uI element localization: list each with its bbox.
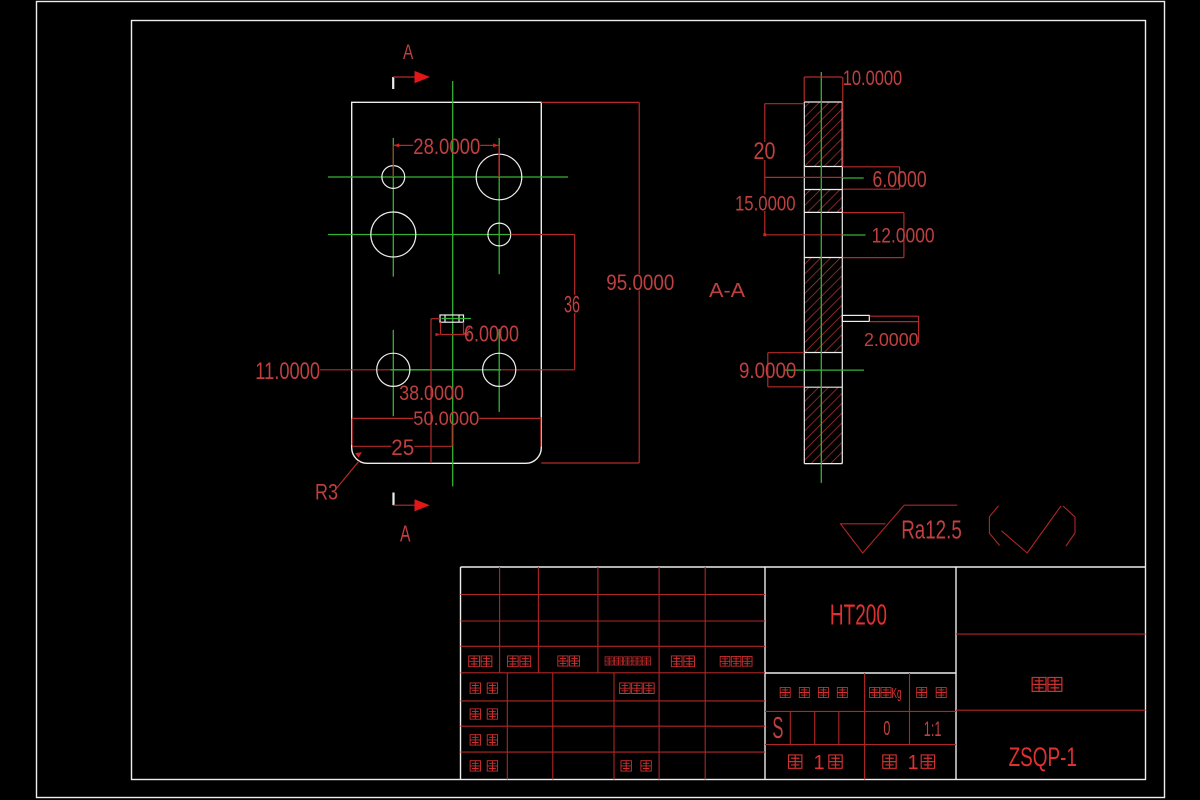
- label zhongliang: [870, 687, 880, 697]
- slot outline: [440, 315, 464, 322]
- revision grid h7: [461, 751, 766, 753]
- plate outline: [352, 102, 542, 463]
- revision grid v3 lower: [613, 673, 615, 780]
- dim 28 arrow left: [393, 143, 399, 147]
- section centerline row1 stub: [843, 177, 864, 179]
- dim 28 line right: [480, 144, 499, 146]
- dim 20 vertical lower: [764, 160, 766, 177]
- label gong 1 ye: [789, 755, 802, 768]
- slot end cap right: [458, 315, 460, 322]
- section marker top white tick: [392, 77, 394, 89]
- dim 10 ext left: [803, 77, 805, 102]
- stamp divider v4: [864, 673, 866, 780]
- stamp row line bottom: [765, 744, 956, 746]
- svg-text:10.0000: 10.0000: [843, 66, 903, 90]
- dim 28 ext right: [498, 145, 500, 177]
- strip right edge: [841, 102, 843, 464]
- svg-text:S: S: [772, 710, 783, 745]
- label genggaiwenjianhao: [605, 657, 613, 665]
- dim 20 vertical upper: [764, 104, 766, 142]
- dim 36 vertical upper: [574, 235, 576, 296]
- label bili: [917, 687, 927, 697]
- dim 28 arrow right: [493, 143, 499, 147]
- label qianming: [671, 656, 682, 667]
- R3 leader: [337, 461, 359, 488]
- title block white top edge: [461, 566, 1146, 568]
- dim 6 arrow left: [436, 333, 441, 337]
- strip top edge: [804, 101, 842, 103]
- revision grid v4 full: [658, 567, 660, 780]
- revision grid v3 upper: [597, 567, 599, 673]
- revision grid v2 upper: [537, 567, 539, 673]
- dim 6 slot connect: [431, 318, 440, 320]
- dim 25 line left: [352, 445, 391, 447]
- svg-text:2.0000: 2.0000: [864, 330, 919, 350]
- dim 6 slot left vertical: [430, 319, 432, 464]
- dim 6 arrow right: [464, 333, 469, 337]
- dim 95 vertical upper: [638, 102, 640, 274]
- revision grid v1 lower: [506, 673, 508, 780]
- dim 10 line: [804, 76, 842, 78]
- revision grid v5 full: [704, 567, 706, 780]
- stamp divider v5: [909, 673, 911, 745]
- label shenhe: [470, 735, 480, 745]
- hatch block B: [804, 190, 842, 213]
- svg-text:1: 1: [908, 752, 919, 774]
- roughness symbol triangle: [841, 505, 958, 553]
- dim 6 bracket vertical: [899, 167, 901, 189]
- dim 10 ext right: [842, 77, 844, 167]
- dim line 11.0000 left segment: [320, 369, 391, 371]
- row1 red line: [765, 176, 843, 178]
- material box bottom white: [765, 672, 956, 674]
- svg-text:28.0000: 28.0000: [413, 134, 480, 159]
- svg-text:20: 20: [754, 138, 776, 165]
- centerline col-right upper: [498, 138, 500, 274]
- label pizhun: [621, 761, 631, 771]
- dim 6 line: [441, 334, 464, 336]
- dim 50 line right: [479, 417, 541, 419]
- dim 15 vertical upper: [764, 177, 766, 194]
- dim 6 bracket bottom: [843, 188, 900, 190]
- paren left: [989, 506, 999, 546]
- part box line 1: [956, 633, 1146, 635]
- dim line 11.0000 right segment: [501, 369, 575, 371]
- hole C top edge: [804, 352, 842, 354]
- R3 arrow: [355, 452, 362, 458]
- svg-text:11.0000: 11.0000: [255, 358, 320, 385]
- label biaozhunhua: [620, 683, 631, 694]
- dim 50 ext right: [540, 417, 542, 447]
- check symbol: [1002, 506, 1062, 553]
- section marker top line: [393, 76, 415, 78]
- hole B bottom edge: [804, 257, 842, 259]
- revision grid h2: [461, 620, 766, 622]
- strip bottom edge: [804, 463, 842, 465]
- label nianyueri: [720, 656, 730, 666]
- slot centerline: [442, 318, 472, 320]
- svg-text:Kg: Kg: [892, 685, 902, 702]
- dim 25 ext right: [451, 425, 453, 446]
- dim 9 bracket top: [768, 352, 805, 354]
- dim 28 ext left: [392, 145, 394, 177]
- label jiaodui: [470, 709, 480, 719]
- label chushu: [507, 656, 518, 667]
- revision grid h5: [461, 700, 766, 702]
- svg-text:A: A: [403, 40, 414, 64]
- svg-text:HT200: HT200: [830, 600, 887, 632]
- dim 12 bracket bottom: [843, 257, 904, 259]
- dim 28 line left: [393, 144, 413, 146]
- centerline col-right lower: [498, 329, 500, 412]
- plate bottom ext line: [541, 462, 639, 464]
- stamp cell v3: [838, 711, 840, 744]
- dim 6 ext left: [440, 322, 442, 334]
- hole H5: [377, 353, 410, 386]
- section marker bottom arrow: [415, 499, 430, 511]
- section centerline vertical: [820, 72, 822, 483]
- dim 6 leader: [464, 328, 471, 335]
- hatch block C: [804, 258, 842, 353]
- svg-text:6.0000: 6.0000: [464, 321, 519, 347]
- section marker bottom line: [394, 504, 416, 506]
- hole A lower lip: [804, 189, 842, 191]
- row2 corner dot: [763, 233, 766, 236]
- svg-text:36: 36: [564, 292, 580, 319]
- dim 15 vertical lower: [764, 211, 766, 235]
- svg-text:ZSQP-1: ZSQP-1: [1009, 742, 1077, 772]
- revision grid h1: [461, 594, 766, 596]
- hole C bottom edge: [804, 386, 842, 388]
- dim 12 bracket vertical: [903, 213, 905, 258]
- title block white divider 2: [955, 567, 957, 780]
- svg-text:50.0000: 50.0000: [413, 409, 479, 430]
- hatch block D: [804, 387, 842, 463]
- svg-text:A-A: A-A: [709, 279, 745, 302]
- title block white divider 1: [764, 567, 766, 780]
- slot end cap left: [444, 315, 446, 322]
- stamp cell v2: [814, 711, 816, 744]
- dim 2 bracket bottom: [870, 321, 919, 323]
- hole H2: [476, 154, 522, 200]
- svg-text:9.0000: 9.0000: [739, 358, 796, 383]
- row2 red line: [765, 234, 843, 236]
- svg-text:15.0000: 15.0000: [735, 191, 796, 215]
- dim 36 vertical lower: [574, 313, 576, 370]
- dim 6 bracket top: [843, 166, 900, 168]
- dim 2 bracket top: [870, 315, 919, 317]
- dim 50 ext left: [351, 418, 353, 445]
- dim 50 line left: [352, 417, 413, 419]
- section centerline row2 stub: [843, 234, 866, 236]
- label di 1 ye: [883, 755, 896, 768]
- svg-text:25: 25: [391, 435, 414, 460]
- svg-text:1:1: 1:1: [924, 718, 942, 741]
- dim 95 vertical lower: [638, 290, 640, 463]
- centerline row2: [328, 234, 511, 236]
- dim 6 ext right: [463, 322, 465, 334]
- hole B top edge: [804, 211, 842, 213]
- svg-text:38.0000: 38.0000: [399, 381, 464, 405]
- svg-text:Ra12.5: Ra12.5: [901, 517, 962, 545]
- centerline row3: [391, 369, 502, 371]
- centerline row1: [328, 176, 568, 178]
- part box line 2: [956, 709, 1146, 711]
- label fenqu: [558, 656, 568, 666]
- label tuyangbiaoji: [780, 687, 790, 697]
- label biaoji: [469, 656, 480, 667]
- dim 20 top line: [765, 103, 805, 105]
- revision grid h6: [461, 725, 766, 727]
- hole H1: [382, 166, 405, 189]
- plate top ext line: [541, 101, 639, 103]
- centerline col-left upper: [392, 138, 394, 277]
- revision grid h3: [461, 645, 766, 647]
- revision grid v2 lower: [552, 673, 554, 780]
- dim 9 bracket vertical: [767, 353, 769, 387]
- svg-text:95.0000: 95.0000: [606, 270, 674, 295]
- section marker top arrow: [415, 71, 431, 83]
- hole H3: [371, 212, 416, 257]
- hatch block A: [804, 102, 842, 167]
- svg-text:R3: R3: [315, 480, 338, 505]
- hole A bottom edge: [804, 166, 842, 168]
- svg-text:12.0000: 12.0000: [872, 224, 935, 248]
- dim 2 bracket vertical: [918, 316, 920, 343]
- revision grid h4: [461, 672, 766, 674]
- part name dizuo: [1032, 677, 1046, 691]
- centerline col-left lower: [392, 330, 394, 416]
- dim row2 red segment: [511, 234, 575, 236]
- stamp row line top: [765, 710, 956, 712]
- label gongyi: [470, 761, 480, 771]
- centerline main vertical: [452, 81, 454, 486]
- dim 25 line right: [414, 445, 452, 447]
- hole H6: [483, 353, 516, 386]
- dim 9 bracket bottom: [768, 386, 805, 388]
- stamp cell v1: [789, 711, 791, 744]
- svg-text:1: 1: [814, 752, 825, 774]
- section marker bottom white tick: [392, 493, 394, 506]
- title block white left edge: [460, 567, 462, 780]
- label sheji: [470, 683, 480, 693]
- hole H4: [488, 223, 511, 246]
- tab outline: [842, 315, 869, 321]
- strip left edge: [803, 102, 805, 464]
- paren right: [1063, 506, 1075, 546]
- section centerline row3: [784, 369, 864, 371]
- svg-text:0: 0: [883, 718, 890, 740]
- dim 12 bracket top: [843, 212, 904, 214]
- svg-text:A: A: [400, 521, 411, 547]
- svg-text:6.0000: 6.0000: [873, 166, 927, 192]
- revision grid v1 upper: [499, 567, 501, 673]
